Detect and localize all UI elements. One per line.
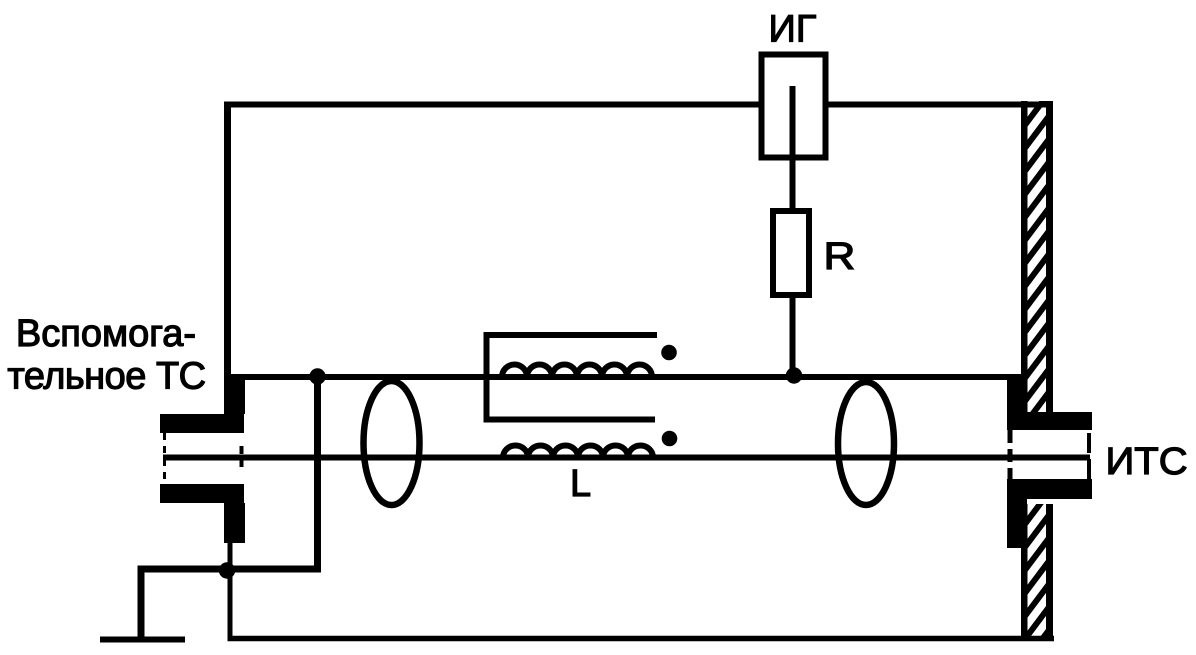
ground stub — [100, 637, 185, 643]
svg-text:L: L — [570, 463, 591, 505]
enclosure bottom wall — [228, 636, 1055, 642]
polarity dot (bottom winding) — [662, 431, 678, 447]
shielded wall (right) left border, upper segment — [1021, 101, 1028, 412]
left feed-through connector: dashed dielectric edge — [163, 433, 166, 484]
wire: vertical drop from node A to lower bus — [141, 377, 318, 640]
pulse generator inner electrode line — [790, 86, 796, 158]
svg-text:R: R — [824, 235, 856, 277]
node C (junction dot at resistor / top conductor) — [786, 367, 802, 383]
svg-text:Вспомога-: Вспомога- — [16, 313, 196, 355]
shielded wall (right) hatching, upper segment — [1025, 93, 1049, 424]
left feed-through connector: lower wall block — [224, 503, 245, 543]
svg-text:ИТС: ИТС — [1106, 441, 1188, 483]
pulse generator U1 (ИГ) box — [762, 55, 826, 158]
shielded wall (right) left border, lower segment — [1021, 504, 1028, 641]
right feed-through connector: upper wall block — [1007, 378, 1025, 414]
node A (junction dot, top-left) — [309, 368, 325, 384]
shielded wall (right) hatching, lower segment — [1025, 492, 1049, 655]
svg-text:тельное ТС: тельное ТС — [7, 356, 205, 398]
shielded wall (right) right border, upper segment — [1046, 101, 1053, 412]
wire: generator branch (vertical) — [790, 86, 796, 380]
right feed-through connector: lower wall block — [1007, 499, 1027, 548]
right feed-through connector: dashed dielectric edge — [1087, 433, 1091, 481]
enclosure left wall (lower section) — [228, 540, 233, 641]
left feed-through connector: top flange — [160, 414, 244, 433]
ferrite ring (left toroid, side view) — [364, 381, 420, 505]
left feed-through connector: upper wall block — [224, 374, 245, 414]
right feed-through connector: top flange — [1007, 412, 1092, 430]
wire: center conductor — [163, 455, 1090, 461]
node B (junction dot on enclosure wall, bottom-left) — [219, 562, 235, 578]
transformer primary winding (top coil) — [502, 365, 652, 378]
shielded wall (right) right border, lower segment — [1046, 504, 1053, 641]
left feed-through connector: bottom flange — [160, 484, 244, 503]
transformer secondary winding L (bottom coil) — [503, 446, 653, 458]
enclosure left wall (upper section) — [224, 102, 231, 379]
left feed-through connector: inner dashed edge — [240, 446, 244, 470]
right feed-through connector: bottom flange — [1007, 479, 1092, 499]
svg-text:ИГ: ИГ — [769, 9, 817, 51]
transformer shield bracket — [487, 335, 658, 420]
right feed-through connector: dashed inner edge — [1008, 430, 1013, 479]
enclosure top wall — [224, 102, 1051, 108]
wire: top conductor (shield line) — [227, 374, 1023, 380]
polarity dot (top winding) — [661, 345, 677, 361]
ferrite ring (right toroid, side view) — [838, 382, 894, 505]
resistor R — [773, 211, 809, 295]
